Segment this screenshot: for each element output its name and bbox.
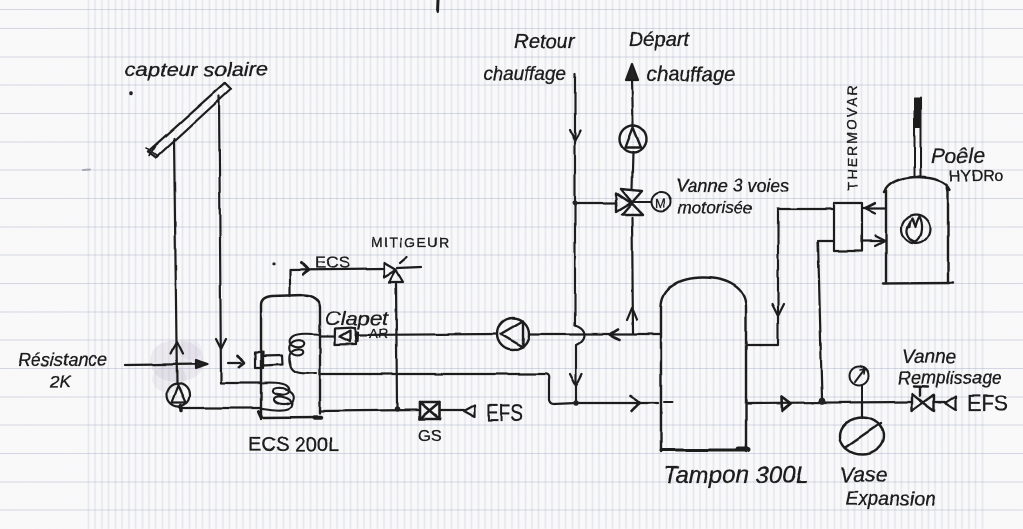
wire: buffer right outlet to fill line bbox=[746, 402, 912, 403]
check valve (clapet anti-retour) bbox=[335, 328, 358, 345]
expansion vessel (vase expansion) bbox=[840, 418, 884, 455]
arrow from Resistance label to riser bbox=[125, 360, 208, 368]
short mark inside tank bbox=[664, 401, 672, 403]
flame symbol in stove bbox=[902, 215, 931, 244]
arrowhead on ECS output bbox=[301, 263, 309, 275]
valve GS (square with X) bbox=[420, 402, 440, 419]
svg-text:GS: GS bbox=[418, 428, 441, 445]
wire: valve bottom down to buffer line bbox=[632, 218, 633, 333]
wire: mitigeur cold feed down pipe bbox=[396, 282, 397, 408]
eraser smudge near Resistance arrow bbox=[150, 340, 204, 393]
svg-text:Retour: Retour bbox=[514, 31, 575, 53]
pump P-chauffage (circle with up triangle) bbox=[620, 126, 647, 153]
wire: fill valve to EFS inlet bbox=[934, 401, 945, 403]
ink dot left of ECS arrow bbox=[272, 262, 275, 265]
svg-text:EFS: EFS bbox=[967, 390, 1008, 416]
buffer tank Tampon 300L bbox=[661, 278, 748, 452]
wire: valve to heating pump bbox=[632, 152, 633, 189]
faint margin smudge bbox=[83, 169, 90, 172]
junction dot retour / buffer feed bbox=[573, 400, 579, 406]
junction dot at expansion tee bbox=[819, 398, 826, 405]
wire: GS to EFS inlet bbox=[440, 409, 464, 411]
fill valve (vanne remplissage) bowtie bbox=[912, 387, 934, 412]
svg-text:Vanne 3 voies: Vanne 3 voies bbox=[676, 176, 789, 196]
svg-text:chauffage: chauffage bbox=[483, 64, 566, 85]
wire: tank to check valve bbox=[320, 335, 333, 337]
svg-text:2K: 2K bbox=[49, 372, 71, 391]
svg-text:Poêle: Poêle bbox=[931, 145, 985, 168]
arrowhead down on retour line (upper) bbox=[570, 130, 581, 141]
svg-text:Départ: Départ bbox=[629, 29, 690, 51]
solar collector panel bbox=[146, 83, 231, 158]
pressure gauge bbox=[850, 367, 869, 402]
ink dot under label bbox=[129, 91, 133, 95]
wire: pump to buffer tank with crossover hop bbox=[529, 333, 660, 335]
svg-text:Remplissage: Remplissage bbox=[898, 368, 1002, 388]
wire: buffer top right pipe from Thermovar bbox=[747, 209, 778, 345]
small arrow into heating element bbox=[228, 356, 244, 368]
wire: EFS cold water line from tank bottom bbox=[320, 410, 420, 411]
arrowhead down on right downcomer bbox=[216, 339, 226, 349]
svg-text:Vanne: Vanne bbox=[902, 347, 956, 368]
arrowhead right after buffer bbox=[782, 397, 791, 411]
svg-text:Résistance: Résistance bbox=[18, 350, 107, 370]
ECS tank outline bbox=[259, 295, 321, 419]
wire: thermovar to stove bottom with right arrow bbox=[862, 236, 886, 246]
electric heating element through tank wall bbox=[255, 352, 283, 368]
lower coil heat exchanger in ECS tank bbox=[262, 383, 294, 410]
open arrow EFS right inlet bbox=[945, 396, 956, 410]
arrowhead down on that pipe bbox=[772, 304, 784, 316]
motor M circle bbox=[634, 193, 671, 212]
svg-text:Tampon 300L: Tampon 300L bbox=[663, 462, 809, 489]
stove chimney bbox=[914, 98, 921, 177]
svg-text:motorisée: motorisée bbox=[678, 198, 753, 217]
svg-text:ECS 200L: ECS 200L bbox=[248, 434, 339, 456]
svg-text:EFS: EFS bbox=[486, 400, 523, 427]
svg-text:M: M bbox=[655, 196, 666, 211]
arrowhead down on retour line (lower) bbox=[570, 374, 582, 386]
wire: buffer feed into tank with arrow bbox=[576, 402, 658, 404]
svg-text:AR: AR bbox=[369, 325, 388, 341]
junction dot mitigeur downpipe / EFS line bbox=[394, 406, 400, 412]
wire: ECS mid return line to buffer feed bbox=[320, 374, 576, 404]
wire: solar left riser pipe bbox=[174, 139, 177, 384]
svg-text:HYDRo: HYDRo bbox=[949, 168, 1003, 185]
pump P-solar (circle with up triangle) bbox=[167, 384, 190, 407]
stray scan mark top edge bbox=[436, 0, 440, 12]
svg-text:Expansion: Expansion bbox=[845, 488, 936, 510]
svg-text:Vase: Vase bbox=[840, 464, 887, 487]
svg-text:THERMOVAR: THERMOVAR bbox=[844, 84, 860, 190]
arrowhead up on valve bottom pipe bbox=[627, 308, 637, 320]
pump P-ECS (circle with left triangle) bbox=[497, 318, 529, 350]
wire: ECS hot output to mitigeur bbox=[290, 269, 384, 296]
svg-text:ECS: ECS bbox=[315, 253, 350, 272]
wire: thermovar to stove top with left arrow bbox=[862, 203, 886, 213]
wire: retour branch to 3-way valve bbox=[575, 202, 616, 204]
3-way motorised valve V3V bbox=[616, 189, 643, 215]
arrowhead up depart bbox=[626, 64, 638, 80]
svg-text:MITIGEUR: MITIGEUR bbox=[371, 234, 451, 250]
upper coil heat exchanger in ECS tank bbox=[289, 334, 320, 374]
wire: thermovar down to fill line bbox=[818, 241, 834, 398]
arrowhead left on pump-buffer line bbox=[610, 329, 620, 340]
wire: pump bottom to ECS coil return bbox=[178, 407, 261, 409]
wire: check valve to pump bbox=[355, 334, 497, 335]
THERMOVAR box bbox=[834, 203, 862, 251]
arrowhead up on left riser bbox=[171, 342, 183, 354]
open arrow EFS inlet bbox=[464, 405, 475, 417]
arrowhead right on buffer feed bbox=[631, 396, 641, 411]
junction blob retour/branch bbox=[572, 200, 577, 205]
expansion vessel stem bbox=[861, 401, 863, 418]
wire: solar right downcomer pipe bbox=[219, 96, 261, 383]
svg-text:capteur solaire: capteur solaire bbox=[125, 60, 268, 81]
wire: depart chauffage with up arrow bbox=[632, 78, 633, 126]
mitigeur (thermostatic mixing valve) bbox=[384, 257, 421, 282]
stove body (poele hydro) bbox=[883, 177, 953, 284]
wire: Retour chauffage riser bbox=[575, 74, 585, 403]
svg-text:chauffage: chauffage bbox=[647, 64, 735, 86]
wire: thermovar top line bbox=[778, 208, 834, 210]
